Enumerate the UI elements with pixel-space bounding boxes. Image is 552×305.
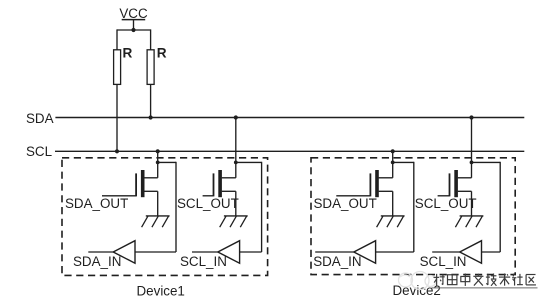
ground Q4 xyxy=(455,216,483,227)
wire Q1 buffer drop vertical xyxy=(175,162,177,252)
wire resistor tops xyxy=(117,29,151,31)
buffer Q2 input buffer xyxy=(218,241,240,264)
junction dot Q1 branch xyxy=(156,161,160,165)
junction dot R2-SDA xyxy=(149,115,153,119)
wire Q4 source to ground xyxy=(471,191,473,216)
Device1 box (dashed) xyxy=(62,158,268,276)
wire Q2 branch to buffer drop xyxy=(236,161,262,163)
VCC supply bar xyxy=(122,19,146,21)
wire Q3 drain lead xyxy=(379,177,393,179)
junction dot below VCC xyxy=(131,28,135,32)
transistor Q1 channel bar xyxy=(141,170,145,197)
wire Q1 branch to buffer drop xyxy=(158,161,176,163)
wire Q2 trunk from bus xyxy=(235,118,237,163)
resistor R (left, R1) xyxy=(114,50,121,85)
wire Q1 gate lead xyxy=(102,195,136,197)
wire Q3 gate lead xyxy=(336,195,370,197)
wire Q4 gate lead xyxy=(438,195,450,197)
wire Q1 drain lead xyxy=(144,177,157,179)
wire Q3 buffer drop vertical xyxy=(413,162,415,252)
wire Q4 drain lead xyxy=(458,177,472,179)
wire Q1 buffer output xyxy=(88,251,113,253)
SDA bus wire xyxy=(55,117,524,119)
wire Q1 source to ground xyxy=(157,191,159,216)
wire Q4 trunk to drain level xyxy=(471,162,473,177)
junction dot Q2 trunk on bus xyxy=(234,115,238,119)
buffer Q4 input buffer xyxy=(460,241,482,264)
svg-text:R: R xyxy=(123,46,133,61)
svg-text:R: R xyxy=(157,46,167,61)
wire Q4 buffer output xyxy=(432,251,460,253)
svg-text:SCL_OUT: SCL_OUT xyxy=(415,196,477,211)
transistor Q3 channel bar xyxy=(375,170,379,197)
wire Q4 branch to buffer drop xyxy=(472,161,501,163)
junction dot Q1 trunk on bus xyxy=(156,149,160,153)
svg-text:Device1: Device1 xyxy=(137,283,185,298)
watermark glyph wen xyxy=(473,274,483,286)
transistor Q3 gate plate xyxy=(369,173,371,196)
wire Q1 buffer input xyxy=(135,251,176,253)
wire Q1 source lead xyxy=(144,190,157,192)
wire to resistor R2 top xyxy=(150,29,152,49)
svg-text:VCC: VCC xyxy=(119,6,148,21)
transistor Q2 channel bar xyxy=(218,170,222,197)
junction dot Q2 branch xyxy=(234,161,238,165)
watermark glyph shu xyxy=(499,273,510,285)
buffer Q3 input buffer xyxy=(354,241,376,264)
wire Q4 buffer input xyxy=(482,251,501,253)
watermark glyph qu xyxy=(526,275,536,285)
svg-text:SDA_IN: SDA_IN xyxy=(73,254,121,269)
wire Q4 buffer drop vertical xyxy=(499,162,501,252)
wire Q3 buffer input xyxy=(376,251,414,253)
Device2 box (dashed) xyxy=(311,158,515,275)
transistor Q2 gate plate xyxy=(213,173,215,196)
wire R2 bottom to SDA xyxy=(150,84,152,117)
wire Q2 buffer output xyxy=(192,251,218,253)
wire Q3 trunk from bus xyxy=(392,151,394,162)
junction dot R1-SCL xyxy=(115,149,119,153)
watermark glyph ji xyxy=(486,273,497,285)
wire Q2 buffer input xyxy=(240,251,262,253)
watermark glyph zhong xyxy=(461,273,470,285)
junction dot Q4 trunk on bus xyxy=(469,115,473,119)
watermark logo circles xyxy=(399,272,437,290)
transistor Q4 gate plate xyxy=(449,173,451,196)
wire Q2 source to ground xyxy=(235,191,237,216)
wire Q2 buffer drop vertical xyxy=(261,162,263,252)
svg-text:SDA: SDA xyxy=(26,111,54,126)
watermark underline xyxy=(432,287,538,289)
resistor R (right, R2) xyxy=(147,50,154,85)
wire Q2 source lead xyxy=(222,190,236,192)
wire Q3 branch to buffer drop xyxy=(393,161,414,163)
buffer Q1 input buffer xyxy=(113,241,135,264)
wire R1 bottom to SCL xyxy=(116,84,118,151)
wire Q2 trunk to drain level xyxy=(235,162,237,177)
wire to resistor R1 top xyxy=(116,29,118,49)
wire Q3 trunk to drain level xyxy=(392,162,394,177)
junction dot Q3 branch xyxy=(391,161,395,165)
wire Q3 source to ground xyxy=(392,191,394,216)
wire VCC bar to junction xyxy=(133,20,135,30)
watermark glyph tian xyxy=(447,275,456,285)
ground Q2 xyxy=(220,216,248,227)
junction dot Q3 trunk on bus xyxy=(391,149,395,153)
svg-text:SCL_IN: SCL_IN xyxy=(420,254,467,269)
svg-text:SCL_OUT: SCL_OUT xyxy=(177,196,239,211)
svg-text:SDA_OUT: SDA_OUT xyxy=(65,196,128,211)
SCL bus wire xyxy=(55,150,524,152)
wire Q4 source lead xyxy=(458,190,472,192)
ground Q3 xyxy=(377,216,405,227)
wire Q1 trunk to drain level xyxy=(157,162,159,177)
wire Q2 drain lead xyxy=(222,177,236,179)
wire Q1 trunk from bus xyxy=(157,151,159,162)
svg-text:SCL_IN: SCL_IN xyxy=(180,254,227,269)
svg-text:SDA_IN: SDA_IN xyxy=(313,254,361,269)
transistor Q4 channel bar xyxy=(454,170,458,197)
junction dot Q4 branch xyxy=(470,161,474,165)
svg-text:SDA_OUT: SDA_OUT xyxy=(314,196,377,211)
watermark glyph cun xyxy=(434,274,445,286)
watermark glyph she xyxy=(512,273,523,285)
ground Q1 xyxy=(142,216,170,227)
transistor Q1 gate plate xyxy=(135,173,137,196)
svg-text:SCL: SCL xyxy=(26,144,52,159)
wire Q4 trunk from bus xyxy=(471,118,473,163)
wire Q2 gate lead xyxy=(203,195,214,197)
wire Q3 source lead xyxy=(379,190,393,192)
wire Q3 buffer output xyxy=(315,251,354,253)
